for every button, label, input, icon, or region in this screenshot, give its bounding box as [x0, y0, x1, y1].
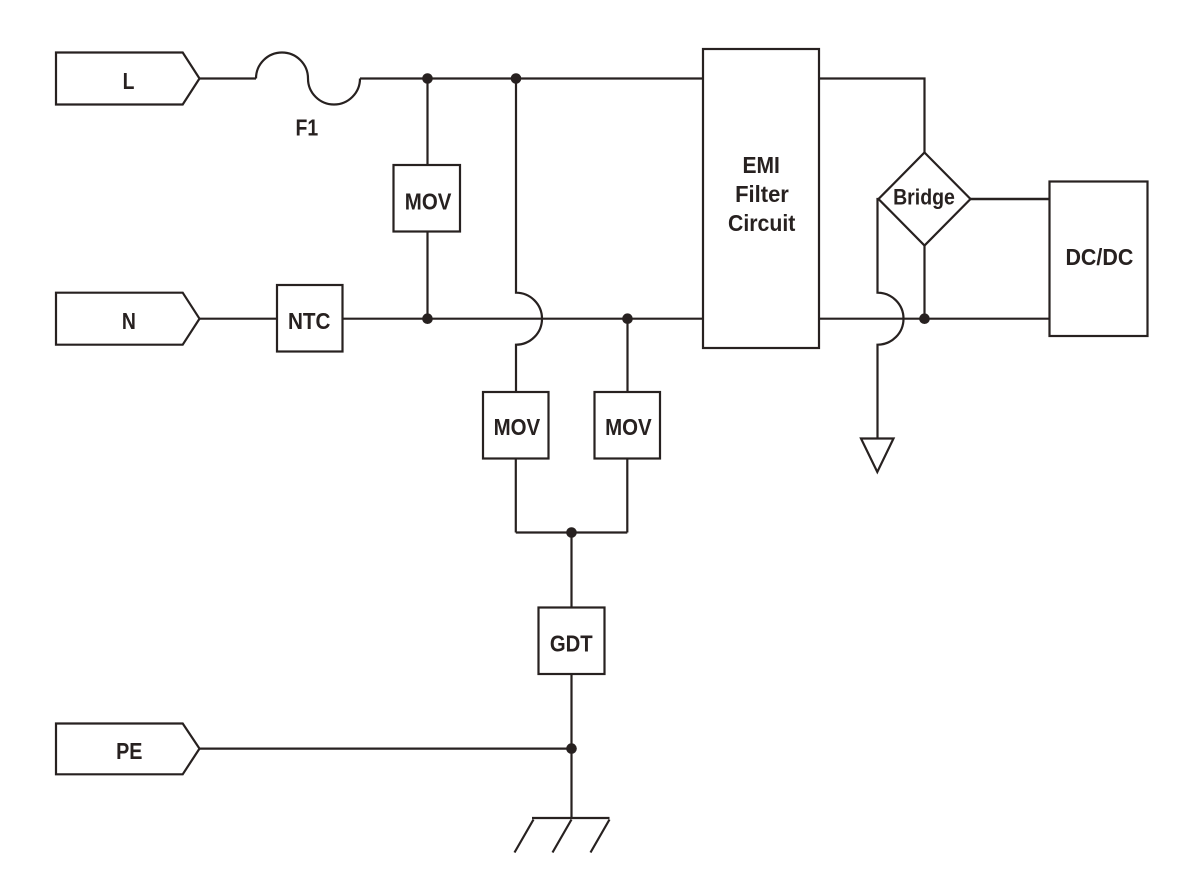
svg-text:MOV: MOV [605, 414, 652, 440]
wire PE flag to ground [200, 747, 572, 749]
svg-text:PE: PE [116, 738, 142, 764]
net flag PE [56, 724, 200, 775]
wire EMI filter to DC/DC (N rail) [819, 318, 1050, 320]
junction L rail / MOV2 branch [511, 73, 522, 84]
svg-text:MOV: MOV [405, 188, 452, 214]
earth ground symbol [515, 818, 610, 853]
wire MOV2 down to common bus [515, 459, 517, 533]
wire NTC to EMI filter (N rail) [343, 318, 704, 320]
wire MOV1 to N rail [426, 232, 428, 319]
block U1 EMI Filter Circuit [703, 49, 819, 348]
wire EMI filter to bridge (L rail) [819, 79, 925, 153]
earth arrow symbol [861, 439, 894, 473]
svg-text:Circuit: Circuit [728, 210, 795, 236]
junction N rail / MOV3 [622, 313, 633, 324]
junction PE rail / GDT [566, 743, 577, 754]
svg-text:DC/DC: DC/DC [1065, 244, 1133, 270]
svg-text:MOV: MOV [494, 414, 541, 440]
wire L rail branch down with hop over N rail to MOV2 [516, 79, 542, 393]
wire bridge bottom corner to N rail [923, 246, 925, 319]
varistor MOV1 (L-N) [394, 165, 461, 232]
svg-text:GDT: GDT [550, 631, 593, 657]
block U2 DC/DC converter [1050, 182, 1148, 337]
thermistor NTC [277, 285, 343, 352]
svg-text:F1: F1 [296, 115, 319, 141]
label EMI Filter Circuit [728, 152, 795, 236]
fuse F1 [256, 53, 360, 105]
junction MOV bus / GDT [566, 527, 577, 538]
wire L rail down to MOV1 [426, 79, 428, 166]
bridge rectifier (diamond) [879, 153, 971, 246]
junction L rail / MOV1 [422, 73, 433, 84]
wire N rail down to MOV3 [626, 319, 628, 392]
svg-text:Filter: Filter [735, 181, 789, 207]
junction N rail / bridge [919, 313, 930, 324]
svg-text:N: N [122, 308, 136, 334]
varistor MOV3 (N-PE) [595, 392, 661, 459]
svg-text:EMI: EMI [743, 152, 780, 178]
svg-text:NTC: NTC [288, 308, 331, 334]
wire GDT down to PE rail [570, 674, 572, 749]
junction N rail / MOV1 [422, 313, 433, 324]
wire MOV common bus [516, 531, 628, 533]
wire N flag to NTC [200, 318, 278, 320]
wire bridge left corner down with hop over N rail to earth arrow [878, 199, 904, 439]
wire PE rail down to earth [570, 749, 572, 818]
svg-text:L: L [123, 68, 135, 94]
net flag L [56, 53, 200, 105]
wire bridge output to DC/DC [971, 198, 1050, 201]
net flag N [56, 293, 200, 345]
svg-text:Bridge: Bridge [893, 185, 955, 210]
varistor MOV2 (L-PE) [483, 392, 549, 459]
wire fuse to EMI filter (L rail) [360, 77, 703, 79]
gas discharge tube GDT [539, 608, 605, 675]
wire bus down to GDT [570, 533, 572, 608]
wire L flag to fuse [200, 77, 257, 79]
wire MOV3 down to common bus [626, 459, 628, 533]
